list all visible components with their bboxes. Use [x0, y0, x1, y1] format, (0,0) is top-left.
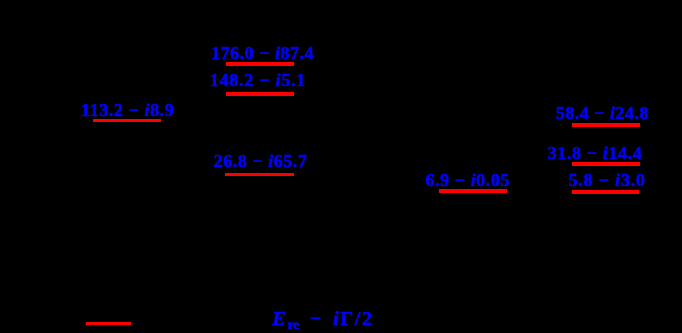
legend text Ere - iGamma/2 — [272, 313, 373, 332]
label 113.2 - i8.9 — [81, 104, 174, 117]
label 26.8 - i65.7 — [214, 155, 308, 168]
label 5.8 - i3.0 — [568, 174, 645, 187]
level line E=176.0-i87.4 — [226, 62, 294, 66]
label 6.9 - i0.05 — [425, 174, 510, 187]
level line E=6.9-i0.05 — [439, 189, 507, 193]
level line E=58.4-i24.8 — [572, 123, 640, 127]
legend red line sample — [86, 322, 131, 325]
label 31.8 - i14.4 — [548, 147, 643, 160]
label 58.4 - i24.8 — [556, 107, 649, 120]
label 148.2 - i5.1 — [210, 74, 306, 87]
level line E=26.8-i65.7 — [225, 173, 294, 177]
label 176.0 - i87.4 — [211, 47, 314, 60]
level line E=5.8-i3.0 — [572, 190, 640, 194]
level line E=148.2-i5.1 — [226, 92, 294, 96]
level line E=31.8-i14.4 — [572, 162, 640, 166]
level line E=113.2-i8.9 — [93, 119, 161, 123]
